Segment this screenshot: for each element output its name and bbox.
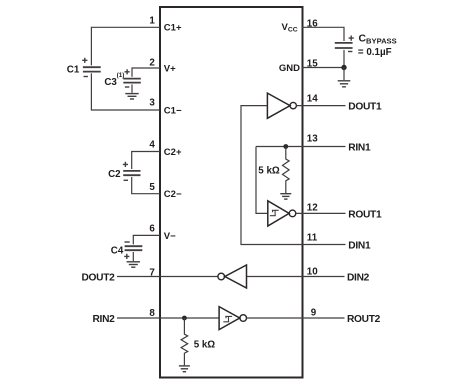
pin 6 wire <box>133 235 160 244</box>
pin 14 wire DOUT1 <box>296 105 345 107</box>
svg-text:C1−: C1− <box>164 105 182 116</box>
pin 4 wire <box>132 152 160 170</box>
receiver2 hysteresis symbol <box>223 316 232 322</box>
pin 15 wire GND <box>302 67 344 69</box>
receiver1 output bubble <box>289 210 296 217</box>
pin 1 wire <box>91 27 160 65</box>
svg-text:CBYPASS: CBYPASS <box>359 34 397 46</box>
svg-text:V−: V− <box>164 231 176 242</box>
svg-text:7: 7 <box>149 267 155 278</box>
svg-text:VCC: VCC <box>282 22 298 34</box>
svg-text:13: 13 <box>307 134 318 145</box>
ground (C3) <box>125 94 138 99</box>
wire node to ground <box>343 68 345 81</box>
svg-text:C2−: C2− <box>164 189 182 200</box>
svg-text:RIN1: RIN1 <box>348 143 371 154</box>
pin 16 wire VCC <box>302 27 344 41</box>
svg-text:C2+: C2+ <box>164 147 182 158</box>
wire C3 to ground <box>131 84 133 92</box>
svg-text:10: 10 <box>307 267 318 278</box>
svg-text:DIN2: DIN2 <box>347 273 370 284</box>
wire CBYPASS to GND node <box>343 50 345 68</box>
pin 2 wire <box>132 68 160 77</box>
driver1 output bubble <box>290 102 296 108</box>
capacitor C3 <box>123 69 141 87</box>
receiver1 hysteresis symbol <box>270 210 279 216</box>
svg-text:C4: C4 <box>111 246 124 257</box>
ground (R1) <box>280 194 291 199</box>
svg-text:5: 5 <box>149 182 155 193</box>
driver2 output bubble <box>218 273 225 280</box>
svg-text:15: 15 <box>307 59 318 70</box>
wire RIN1 to receiver1 input <box>256 147 267 214</box>
svg-text:8: 8 <box>149 308 155 319</box>
svg-text:DIN1: DIN1 <box>348 241 371 252</box>
capacitor C1 <box>82 58 101 77</box>
op-amp buffer U1 driver1 triangle <box>267 93 290 118</box>
pin 7 wire DOUT2 <box>117 276 218 278</box>
op-amp buffer U1 driver2 triangle (points left) <box>225 265 247 288</box>
svg-text:= 0.1µF: = 0.1µF <box>358 47 392 58</box>
wire C1 to pin 3 <box>91 73 160 110</box>
svg-text:6: 6 <box>149 223 155 234</box>
svg-text:14: 14 <box>307 93 318 104</box>
wire C2 to pin 5 <box>132 177 160 194</box>
resistor R2 5k <box>181 318 188 365</box>
svg-text:3: 3 <box>149 97 155 108</box>
svg-text:C1: C1 <box>67 64 80 75</box>
svg-text:C3: C3 <box>104 77 117 88</box>
ground (CBYPASS) <box>338 81 351 87</box>
receiver2 output bubble <box>240 315 247 322</box>
svg-text:2: 2 <box>149 57 155 68</box>
junction node GND <box>341 65 346 70</box>
junction node RIN2 <box>182 316 187 321</box>
pin 12 wire ROUT1 <box>296 212 346 214</box>
svg-text:12: 12 <box>307 203 318 214</box>
IC body U1 <box>160 7 303 378</box>
svg-text:ROUT1: ROUT1 <box>348 209 382 220</box>
schmitt receiver U1 receiver2 triangle <box>219 307 240 330</box>
svg-text:1: 1 <box>149 16 155 27</box>
schmitt receiver U1 receiver1 triangle <box>268 201 289 226</box>
ground (C4) <box>127 262 140 267</box>
svg-text:GND: GND <box>279 63 300 74</box>
capacitor C2 <box>123 162 141 181</box>
ground (R2) <box>179 366 190 372</box>
svg-text:9: 9 <box>311 308 317 319</box>
svg-text:11: 11 <box>307 232 318 243</box>
pin 13 wire RIN1 <box>256 146 346 148</box>
junction node RIN1 <box>283 144 288 149</box>
svg-text:DOUT2: DOUT2 <box>81 273 115 284</box>
svg-text:C2: C2 <box>108 169 121 180</box>
svg-text:5 kΩ: 5 kΩ <box>194 340 216 351</box>
svg-text:16: 16 <box>307 19 318 30</box>
svg-text:ROUT2: ROUT2 <box>347 314 381 325</box>
pin 8 wire RIN2 <box>117 317 219 319</box>
svg-text:DOUT1: DOUT1 <box>348 102 382 113</box>
pin 9 wire ROUT2 <box>247 317 345 319</box>
capacitor CBYPASS <box>335 36 354 52</box>
wire C4 to ground <box>132 252 134 261</box>
wire DIN1 net <box>241 106 346 245</box>
capacitor C4 <box>124 242 142 259</box>
svg-text:RIN2: RIN2 <box>92 314 115 325</box>
resistor R1 5k <box>282 147 289 194</box>
svg-text:4: 4 <box>149 140 155 151</box>
svg-text:(1): (1) <box>117 72 125 79</box>
svg-text:V+: V+ <box>164 63 176 74</box>
svg-text:C1+: C1+ <box>164 23 182 34</box>
pin 10 wire DIN2 <box>247 276 345 278</box>
svg-text:5 kΩ: 5 kΩ <box>258 165 280 176</box>
